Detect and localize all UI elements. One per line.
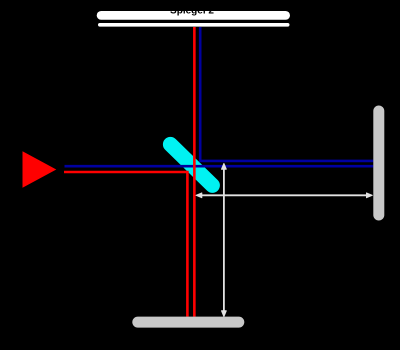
beam red laser outgoing (horizontal then down to detector): [64, 172, 187, 317]
laser source (red triangle): [23, 151, 57, 188]
arrow L2 vertical (double-headed white): [222, 163, 227, 316]
svg-text:Spiegel 2: Spiegel 2: [170, 6, 214, 17]
mirror M2 (right, gray): [373, 106, 384, 221]
beam navy return (vertical from top mirror, corner right to mirror M2): [200, 27, 373, 161]
beamsplitter BS (cyan diagonal): [170, 144, 212, 185]
beam navy lower (laser side to mirror M2): [65, 165, 374, 168]
detector (bottom, gray): [132, 317, 244, 328]
beam red vertical (top mirror to detector): [193, 27, 196, 317]
mirror M1 backing strip: [98, 23, 290, 27]
mirror M1 (top, white) glass bar: [97, 11, 290, 20]
arrow L1 horizontal (double-headed white): [196, 193, 372, 198]
